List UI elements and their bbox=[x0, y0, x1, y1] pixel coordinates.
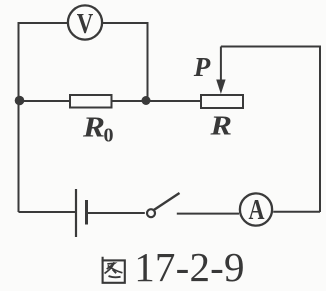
svg-text:R: R bbox=[209, 111, 232, 141]
svg-text:R: R bbox=[82, 112, 105, 144]
svg-text:0: 0 bbox=[104, 125, 114, 147]
svg-text:17-2-9: 17-2-9 bbox=[134, 244, 245, 290]
svg-text:P: P bbox=[193, 52, 211, 82]
svg-text:A: A bbox=[249, 195, 265, 226]
svg-text:V: V bbox=[77, 9, 94, 40]
